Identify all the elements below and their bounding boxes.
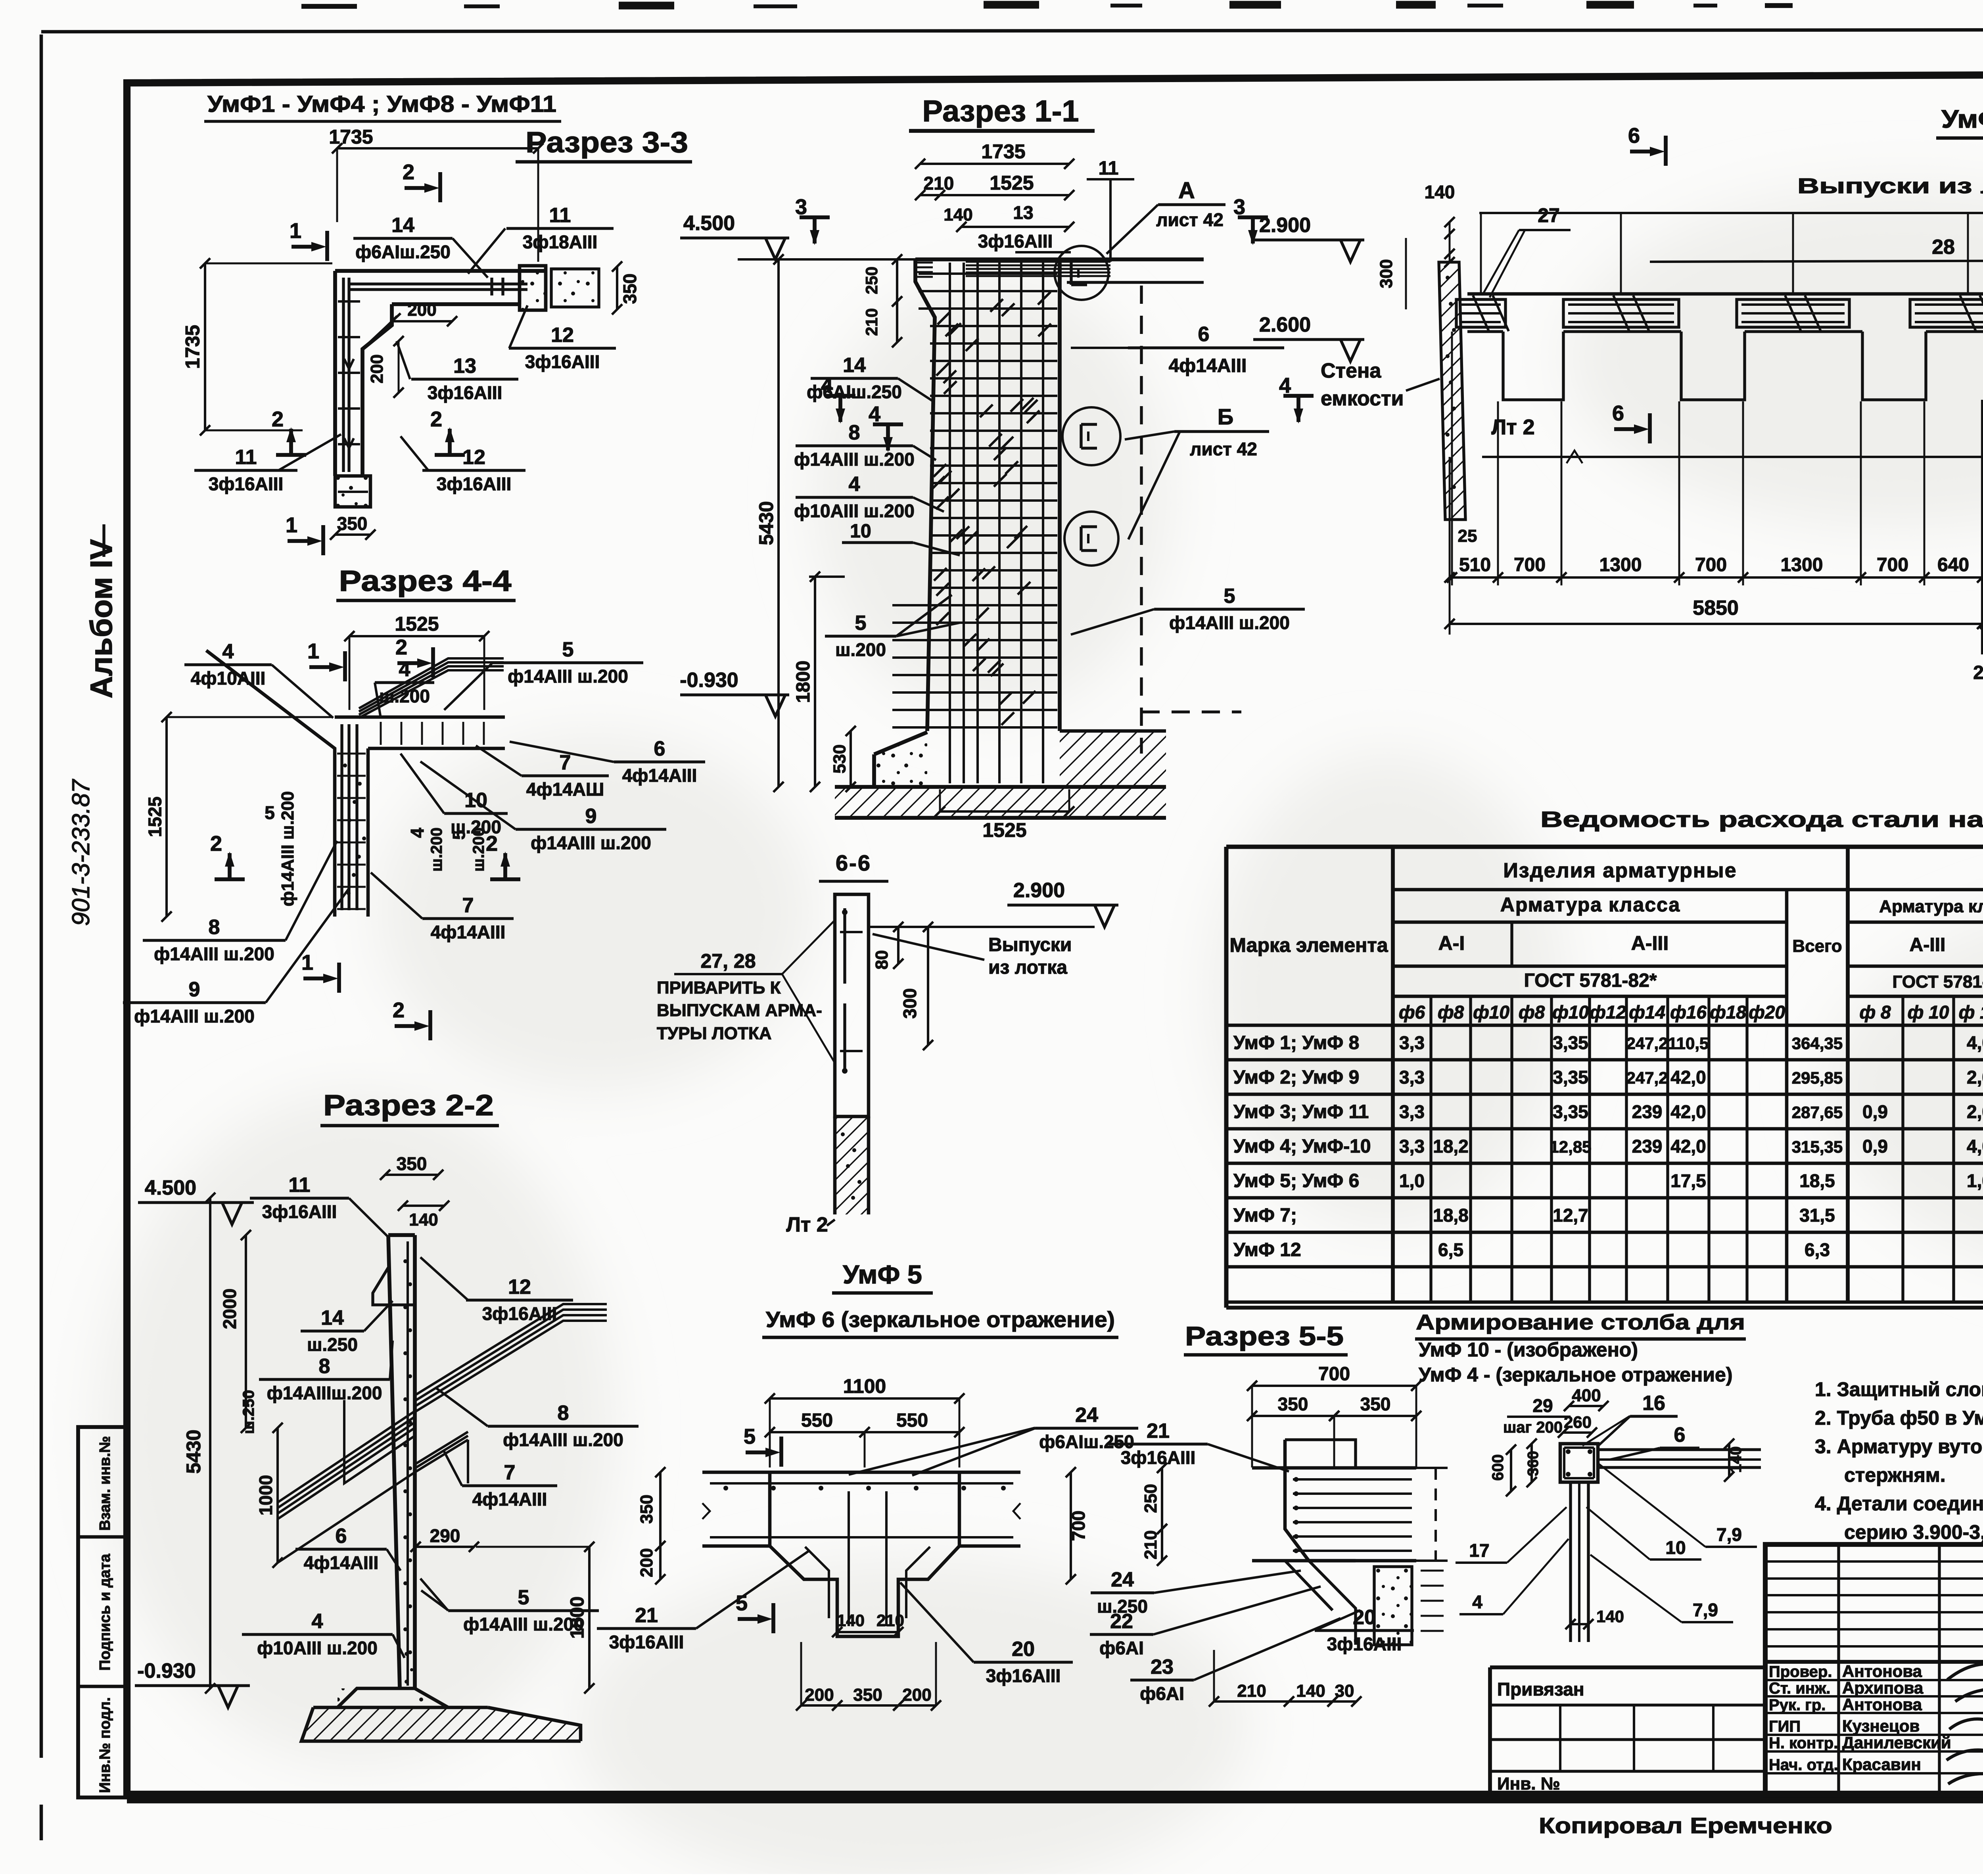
svg-text:4ф14АIII: 4ф14АIII	[431, 922, 506, 942]
svg-text:Разрез 1-1: Разрез 1-1	[922, 94, 1079, 128]
svg-text:11: 11	[549, 204, 571, 227]
svg-text:Арматура класса: Арматура класса	[1500, 894, 1681, 916]
svg-text:239: 239	[1632, 1101, 1663, 1122]
svg-text:шаг 200: шаг 200	[1503, 1419, 1563, 1436]
svg-text:Антонова: Антонова	[1842, 1662, 1922, 1680]
svg-text:18,8: 18,8	[1433, 1205, 1469, 1226]
svg-text:Разрез 4-4: Разрез 4-4	[339, 564, 512, 597]
svg-text:4: 4	[1472, 1592, 1482, 1612]
svg-text:1525: 1525	[145, 796, 165, 837]
svg-text:5: 5	[744, 1425, 756, 1448]
svg-text:140: 140	[1727, 1446, 1745, 1473]
svg-text:1300: 1300	[1781, 554, 1823, 575]
svg-text:700: 700	[1514, 554, 1546, 575]
svg-text:2: 2	[395, 635, 407, 659]
svg-text:110,5: 110,5	[1668, 1034, 1709, 1053]
svg-text:Рук. гр.: Рук. гр.	[1769, 1696, 1826, 1714]
svg-text:5: 5	[265, 802, 275, 823]
svg-text:2: 2	[430, 407, 442, 431]
svg-text:140: 140	[1596, 1607, 1624, 1626]
svg-text:17: 17	[1469, 1540, 1489, 1561]
svg-text:УмФ 12: УмФ 12	[1233, 1239, 1301, 1260]
svg-text:Всего: Всего	[1792, 936, 1842, 956]
svg-text:ф6АI: ф6АI	[1140, 1683, 1184, 1704]
svg-text:Ст. инж.: Ст. инж.	[1769, 1680, 1830, 1697]
svg-text:700: 700	[1068, 1511, 1089, 1541]
svg-text:6-6: 6-6	[836, 850, 871, 875]
svg-text:10: 10	[1665, 1537, 1686, 1558]
svg-text:Провер.: Провер.	[1769, 1663, 1832, 1680]
svg-text:360: 360	[1525, 1451, 1542, 1476]
svg-text:Антонова: Антонова	[1842, 1695, 1922, 1714]
svg-text:1525: 1525	[982, 819, 1026, 841]
svg-text:4ф14АШ: 4ф14АШ	[526, 779, 604, 800]
svg-text:17,5: 17,5	[1670, 1170, 1706, 1191]
svg-text:Альбом IV: Альбом IV	[84, 539, 119, 698]
svg-text:ф10АIII ш.200: ф10АIII ш.200	[794, 501, 915, 521]
svg-text:21: 21	[635, 1604, 658, 1627]
svg-text:1525: 1525	[990, 172, 1034, 194]
svg-text:1100: 1100	[843, 1375, 886, 1397]
svg-text:ф14АIII ш.200: ф14АIII ш.200	[508, 666, 628, 687]
svg-text:24: 24	[1075, 1404, 1098, 1427]
svg-text:ф8: ф8	[1519, 1002, 1545, 1022]
svg-text:3ф16АIII: 3ф16АIII	[986, 1665, 1061, 1686]
svg-text:3ф16АIII: 3ф16АIII	[609, 1632, 684, 1652]
svg-text:Б: Б	[1218, 404, 1233, 429]
svg-text:УмФ 1; УмФ 8: УмФ 1; УмФ 8	[1233, 1032, 1359, 1053]
svg-text:8: 8	[849, 421, 860, 444]
svg-text:УмФ 5; УмФ 6: УмФ 5; УмФ 6	[1233, 1170, 1359, 1191]
svg-text:Привязан: Привязан	[1497, 1679, 1584, 1700]
svg-text:5: 5	[562, 638, 574, 661]
svg-text:Нач. отд.: Нач. отд.	[1769, 1756, 1838, 1774]
svg-text:емкости: емкости	[1321, 387, 1404, 410]
svg-text:11: 11	[1099, 158, 1119, 179]
svg-text:6: 6	[654, 737, 665, 760]
svg-text:3ф16АIII: 3ф16АIII	[525, 351, 600, 372]
svg-text:УмФ 4 - (зеркальное отражение): УмФ 4 - (зеркальное отражение)	[1419, 1364, 1733, 1386]
svg-text:ф16: ф16	[1670, 1002, 1707, 1022]
svg-text:210: 210	[1141, 1530, 1160, 1559]
svg-text:УмФ 12: УмФ 12	[1941, 105, 1983, 133]
svg-text:ПРИВАРИТЬ К: ПРИВАРИТЬ К	[657, 978, 781, 997]
svg-text:из лотка: из лотка	[988, 957, 1067, 978]
svg-text:ш.200: ш.200	[835, 639, 886, 660]
svg-text:16: 16	[1642, 1392, 1665, 1415]
svg-text:Разрез 5-5: Разрез 5-5	[1185, 1321, 1344, 1351]
svg-text:3ф16АIII: 3ф16АIII	[482, 1303, 557, 1324]
svg-text:8: 8	[209, 916, 220, 939]
svg-text:42,0: 42,0	[1670, 1101, 1706, 1122]
svg-text:20: 20	[1973, 662, 1983, 683]
svg-text:31,5: 31,5	[1799, 1205, 1835, 1226]
svg-text:9: 9	[189, 978, 200, 1001]
svg-text:2.900: 2.900	[1259, 214, 1311, 237]
svg-text:901-3-233.87: 901-3-233.87	[67, 779, 95, 926]
svg-text:Инв.№ подл.: Инв.№ подл.	[97, 1697, 113, 1793]
svg-text:4: 4	[407, 828, 428, 838]
svg-text:350: 350	[619, 274, 640, 304]
svg-text:0,9: 0,9	[1862, 1136, 1888, 1157]
svg-text:200: 200	[902, 1685, 931, 1705]
svg-text:18,2: 18,2	[1433, 1136, 1469, 1157]
svg-text:12: 12	[551, 324, 574, 347]
svg-text:10: 10	[850, 521, 871, 542]
svg-text:14: 14	[321, 1306, 344, 1329]
svg-text:250: 250	[1141, 1484, 1160, 1513]
svg-text:6,5: 6,5	[1438, 1239, 1463, 1260]
svg-text:5850: 5850	[1693, 597, 1739, 620]
svg-text:2: 2	[210, 832, 222, 856]
svg-text:А: А	[1178, 178, 1195, 203]
svg-text:29: 29	[1532, 1395, 1553, 1416]
svg-text:УмФ 6 (зеркальное отражение): УмФ 6 (зеркальное отражение)	[766, 1307, 1115, 1332]
svg-text:3,35: 3,35	[1553, 1032, 1588, 1053]
svg-text:315,35: 315,35	[1792, 1137, 1843, 1156]
svg-text:12,7: 12,7	[1553, 1205, 1588, 1226]
svg-text:Н. контр.: Н. контр.	[1769, 1734, 1838, 1752]
svg-text:210: 210	[1237, 1681, 1266, 1701]
svg-text:3ф16АIII: 3ф16АIII	[1327, 1634, 1402, 1654]
svg-text:2. Труба ф50 в УмФ7 учтен: 2. Труба ф50 в УмФ7 учтена в разделе КО.	[1815, 1407, 1983, 1429]
svg-text:3ф18АIII: 3ф18АIII	[523, 232, 598, 252]
svg-text:Кузнецов: Кузнецов	[1842, 1717, 1920, 1735]
svg-text:1,0: 1,0	[1399, 1170, 1425, 1191]
svg-text:серию 3.900-3, вып. 2/82 лист: серию 3.900-3, вып. 2/82 лист 7.	[1844, 1521, 1983, 1543]
svg-text:Армирование столба для: Армирование столба для	[1416, 1310, 1745, 1334]
svg-text:4: 4	[312, 1610, 323, 1633]
svg-text:9: 9	[585, 805, 597, 828]
svg-text:1525: 1525	[395, 613, 439, 635]
svg-text:ф10: ф10	[1552, 1002, 1589, 1022]
svg-text:210: 210	[876, 1611, 904, 1630]
svg-text:ГОСТ 5781-82*: ГОСТ 5781-82*	[1524, 970, 1657, 991]
svg-text:140: 140	[1296, 1681, 1325, 1701]
svg-text:210: 210	[924, 173, 954, 194]
svg-text:4: 4	[222, 640, 234, 663]
svg-text:7: 7	[504, 1461, 516, 1484]
svg-text:1,0: 1,0	[1967, 1170, 1983, 1191]
svg-text:200: 200	[805, 1685, 834, 1705]
svg-text:5430: 5430	[755, 501, 777, 545]
svg-text:14: 14	[391, 214, 414, 237]
svg-text:11: 11	[235, 446, 257, 469]
svg-text:5: 5	[855, 612, 867, 635]
svg-text:200: 200	[637, 1548, 656, 1577]
svg-text:140: 140	[409, 1210, 438, 1230]
svg-text:3,3: 3,3	[1399, 1101, 1425, 1122]
svg-text:140: 140	[1425, 182, 1455, 202]
svg-text:247,2: 247,2	[1626, 1034, 1668, 1053]
svg-text:2,0: 2,0	[1967, 1101, 1983, 1122]
svg-text:350: 350	[1360, 1394, 1391, 1414]
svg-text:140: 140	[944, 205, 972, 224]
svg-text:3,3: 3,3	[1399, 1136, 1425, 1157]
svg-text:Изделия арматурные: Изделия арматурные	[1503, 859, 1737, 882]
svg-text:1735: 1735	[981, 140, 1025, 163]
svg-text:Выпуски из лотков: Выпуски из лотков	[1797, 174, 1983, 198]
svg-text:14: 14	[843, 354, 866, 377]
svg-text:-0.930: -0.930	[680, 669, 738, 692]
svg-text:12,85: 12,85	[1550, 1137, 1591, 1156]
svg-text:350: 350	[853, 1685, 882, 1705]
svg-text:ф6АIш.250: ф6АIш.250	[355, 242, 451, 262]
svg-text:364,35: 364,35	[1792, 1034, 1843, 1053]
svg-text:5: 5	[518, 1586, 529, 1609]
svg-text:ф 10: ф 10	[1908, 1002, 1949, 1022]
svg-text:ш.200: ш.200	[470, 827, 487, 871]
svg-text:350: 350	[397, 1153, 427, 1174]
svg-text:210: 210	[862, 308, 881, 336]
svg-text:2: 2	[393, 998, 405, 1022]
svg-text:3ф16АIII: 3ф16АIII	[209, 474, 284, 494]
svg-text:3. Арматуру вутов приварит: 3. Арматуру вутов приварить к горизонтал…	[1815, 1435, 1983, 1458]
svg-text:1: 1	[290, 219, 301, 243]
svg-text:350: 350	[1278, 1394, 1308, 1414]
svg-text:2,0: 2,0	[1967, 1067, 1983, 1088]
svg-text:2: 2	[403, 160, 414, 184]
svg-text:4.500: 4.500	[145, 1176, 196, 1199]
svg-text:7: 7	[462, 894, 474, 917]
svg-text:Арматура класса: Арматура класса	[1879, 897, 1983, 916]
svg-text:Выпуски: Выпуски	[988, 934, 1072, 955]
svg-text:УмФ 3; УмФ 11: УмФ 3; УмФ 11	[1233, 1101, 1369, 1122]
svg-text:700: 700	[1695, 554, 1727, 575]
svg-text:550: 550	[896, 1410, 928, 1431]
svg-text:7,9: 7,9	[1716, 1524, 1742, 1545]
svg-text:250: 250	[862, 267, 881, 294]
svg-text:3,35: 3,35	[1553, 1101, 1588, 1122]
svg-text:3ф16АIII: 3ф16АIII	[978, 231, 1053, 251]
svg-text:700: 700	[1318, 1364, 1350, 1385]
svg-text:4ф14АIII: 4ф14АIII	[1169, 355, 1247, 376]
svg-text:4.500: 4.500	[683, 212, 735, 235]
svg-text:-0.930: -0.930	[137, 1659, 196, 1682]
svg-text:ш.200: ш.200	[428, 827, 445, 871]
svg-text:295,85: 295,85	[1792, 1068, 1843, 1087]
svg-text:11: 11	[289, 1174, 311, 1197]
svg-text:ш.250: ш.250	[307, 1334, 358, 1355]
svg-text:УмФ 7;: УмФ 7;	[1233, 1205, 1297, 1226]
svg-text:28: 28	[1932, 236, 1955, 259]
svg-text:4: 4	[849, 473, 860, 496]
svg-text:6: 6	[1612, 401, 1624, 425]
svg-text:5: 5	[1224, 585, 1235, 608]
svg-text:Инв. №: Инв. №	[1497, 1774, 1560, 1794]
svg-text:6: 6	[1674, 1423, 1686, 1446]
svg-text:200: 200	[407, 300, 436, 320]
svg-text:УмФ 4; УмФ-10: УмФ 4; УмФ-10	[1233, 1136, 1371, 1157]
svg-text:стержням.: стержням.	[1844, 1464, 1946, 1486]
svg-text:лист 42: лист 42	[1156, 209, 1224, 230]
svg-text:2.600: 2.600	[1259, 313, 1311, 336]
svg-text:22: 22	[1110, 1610, 1133, 1633]
svg-text:350: 350	[337, 513, 368, 534]
svg-text:Разрез 2-2: Разрез 2-2	[323, 1089, 494, 1122]
svg-text:ф14АIIIш.200: ф14АIIIш.200	[267, 1383, 382, 1403]
svg-text:4ф10АIII: 4ф10АIII	[191, 668, 266, 689]
svg-text:Лт 2: Лт 2	[786, 1213, 828, 1236]
svg-text:18,5: 18,5	[1799, 1170, 1835, 1191]
svg-text:27: 27	[1538, 204, 1560, 226]
svg-text:1: 1	[286, 513, 297, 537]
svg-text:42,0: 42,0	[1670, 1136, 1706, 1157]
svg-text:Разрез 3-3: Разрез 3-3	[525, 126, 688, 159]
svg-text:УмФ1 - УмФ4 ; УмФ8 - УмФ11: УмФ1 - УмФ4 ; УмФ8 - УмФ11	[207, 91, 556, 117]
svg-text:4ф14АIII: 4ф14АIII	[622, 765, 697, 786]
svg-text:550: 550	[801, 1410, 833, 1431]
svg-text:УмФ 5: УмФ 5	[843, 1260, 922, 1289]
svg-text:УмФ 2; УмФ 9: УмФ 2; УмФ 9	[1233, 1067, 1359, 1088]
svg-text:6: 6	[336, 1525, 347, 1548]
svg-text:700: 700	[1877, 554, 1908, 575]
svg-text:13: 13	[1013, 202, 1033, 223]
svg-text:Ведомость расхода стали на: Ведомость расхода стали на элемент, кг.	[1540, 807, 1983, 832]
svg-text:Марка элемента: Марка элемента	[1229, 934, 1388, 956]
svg-text:6: 6	[1628, 124, 1640, 148]
svg-text:ф 12: ф 12	[1959, 1002, 1983, 1022]
svg-text:ф14АIII ш.200: ф14АIII ш.200	[1169, 612, 1290, 633]
svg-text:3,35: 3,35	[1553, 1067, 1588, 1088]
svg-text:4,0: 4,0	[1967, 1032, 1983, 1053]
svg-text:8: 8	[319, 1355, 330, 1378]
svg-text:42,0: 42,0	[1670, 1067, 1706, 1088]
svg-text:ф14АIII ш.200: ф14АIII ш.200	[278, 791, 297, 906]
svg-text:300: 300	[1377, 259, 1396, 288]
svg-text:6,3: 6,3	[1805, 1239, 1830, 1260]
svg-text:ф14АIII ш.200: ф14АIII ш.200	[503, 1429, 623, 1450]
svg-text:350: 350	[637, 1494, 656, 1523]
svg-text:2000: 2000	[219, 1289, 240, 1329]
svg-text:3ф16АIII: 3ф16АIII	[428, 382, 502, 403]
svg-text:8: 8	[558, 1402, 569, 1425]
svg-text:ш.200: ш.200	[379, 686, 430, 706]
svg-text:1: 1	[307, 639, 319, 663]
svg-text:2: 2	[486, 832, 498, 856]
svg-text:1800: 1800	[793, 661, 814, 703]
svg-text:3ф16АIII: 3ф16АIII	[262, 1201, 337, 1222]
svg-text:300: 300	[899, 988, 920, 1019]
svg-text:Подпись и дата: Подпись и дата	[97, 1554, 113, 1671]
svg-text:ВЫПУСКАМ АРМА-: ВЫПУСКАМ АРМА-	[657, 1001, 822, 1020]
svg-text:4,0: 4,0	[1967, 1136, 1983, 1157]
svg-text:4: 4	[1279, 374, 1291, 397]
svg-text:3,3: 3,3	[1399, 1067, 1425, 1088]
svg-text:ф6АIш.250: ф6АIш.250	[807, 382, 902, 402]
svg-text:4. Детали соединения арматур: 4. Детали соединения арматурных стержней…	[1815, 1492, 1983, 1515]
svg-text:ф 8: ф 8	[1859, 1002, 1891, 1022]
svg-text:6: 6	[1198, 323, 1210, 346]
svg-text:ТУРЫ ЛОТКА: ТУРЫ ЛОТКА	[657, 1024, 772, 1043]
svg-text:4ф14АIII: 4ф14АIII	[304, 1552, 379, 1573]
svg-text:ф14АIII ш.200: ф14АIII ш.200	[463, 1614, 584, 1634]
svg-text:1300: 1300	[1599, 554, 1642, 575]
svg-text:4: 4	[399, 658, 410, 681]
svg-text:640: 640	[1937, 554, 1969, 575]
svg-text:А-I: А-I	[1438, 932, 1465, 954]
svg-text:4ф14АIII: 4ф14АIII	[472, 1489, 547, 1510]
svg-text:ф14АIII ш.200: ф14АIII ш.200	[154, 944, 274, 964]
svg-text:3,3: 3,3	[1399, 1032, 1425, 1053]
svg-text:287,65: 287,65	[1792, 1103, 1843, 1122]
svg-text:140: 140	[837, 1611, 865, 1630]
svg-text:3ф16АIII: 3ф16АIII	[1121, 1447, 1196, 1468]
svg-text:1800: 1800	[567, 1596, 588, 1639]
svg-text:530: 530	[830, 744, 850, 773]
svg-text:5: 5	[736, 1591, 748, 1615]
svg-text:Архипова: Архипова	[1842, 1678, 1924, 1697]
svg-text:5: 5	[449, 830, 469, 840]
svg-text:3: 3	[795, 195, 807, 219]
svg-text:ф6: ф6	[1399, 1002, 1425, 1022]
svg-text:20: 20	[1353, 1606, 1376, 1629]
svg-text:510: 510	[1459, 554, 1491, 575]
svg-text:УмФ 10 - (изображено): УмФ 10 - (изображено)	[1419, 1339, 1638, 1361]
svg-text:ф20: ф20	[1749, 1002, 1785, 1022]
svg-text:20: 20	[1012, 1638, 1035, 1661]
svg-text:13: 13	[453, 355, 476, 378]
svg-text:ф14АIII ш.200: ф14АIII ш.200	[794, 449, 915, 470]
svg-text:ш.250: ш.250	[240, 1390, 257, 1434]
svg-text:ф10АIII ш.200: ф10АIII ш.200	[257, 1638, 378, 1658]
svg-text:ф18: ф18	[1710, 1002, 1746, 1022]
svg-text:12: 12	[508, 1276, 531, 1299]
svg-text:27, 28: 27, 28	[700, 950, 756, 972]
svg-text:0,9: 0,9	[1862, 1101, 1888, 1122]
svg-text:ф14АIII ш.200: ф14АIII ш.200	[134, 1006, 255, 1026]
svg-text:ф12: ф12	[1590, 1002, 1626, 1022]
svg-text:1000: 1000	[255, 1475, 276, 1515]
svg-text:3: 3	[1233, 195, 1245, 219]
svg-text:5430: 5430	[182, 1429, 205, 1473]
svg-text:239: 239	[1632, 1136, 1663, 1157]
svg-text:А-III: А-III	[1631, 932, 1668, 954]
svg-text:400: 400	[1572, 1386, 1601, 1405]
svg-text:25: 25	[1458, 526, 1477, 546]
svg-text:200: 200	[367, 354, 387, 383]
svg-text:ф6АI: ф6АI	[1099, 1638, 1144, 1658]
svg-text:ГИП: ГИП	[1769, 1718, 1801, 1735]
svg-text:Взам. инв.№: Взам. инв.№	[97, 1436, 113, 1531]
svg-text:Красавин: Красавин	[1842, 1755, 1921, 1774]
svg-text:1. Защитный слой бетона -: 1. Защитный слой бетона - 20 мм.	[1815, 1378, 1983, 1400]
svg-text:80: 80	[872, 950, 892, 970]
svg-text:2: 2	[272, 407, 284, 431]
svg-text:ф14: ф14	[1629, 1002, 1665, 1022]
svg-text:3ф16АIII: 3ф16АIII	[437, 474, 512, 494]
svg-text:ф14АIII ш.200: ф14АIII ш.200	[531, 832, 651, 853]
svg-text:247,2: 247,2	[1626, 1068, 1668, 1087]
svg-text:ф6АIш.250: ф6АIш.250	[1039, 1431, 1134, 1452]
svg-text:ф10: ф10	[1473, 1002, 1509, 1022]
svg-text:2.900: 2.900	[1013, 879, 1065, 902]
svg-text:30: 30	[1335, 1681, 1354, 1701]
svg-text:4: 4	[869, 402, 880, 426]
svg-text:600: 600	[1489, 1454, 1507, 1481]
svg-text:12: 12	[462, 446, 485, 469]
svg-text:23: 23	[1151, 1655, 1174, 1678]
svg-text:1735: 1735	[329, 126, 373, 148]
svg-text:лист 42: лист 42	[1190, 439, 1257, 459]
svg-text:24: 24	[1111, 1568, 1134, 1591]
svg-text:7,9: 7,9	[1693, 1600, 1718, 1620]
svg-text:21: 21	[1147, 1419, 1170, 1442]
svg-text:1: 1	[301, 951, 313, 974]
svg-text:1735: 1735	[182, 325, 204, 369]
svg-text:290: 290	[430, 1525, 460, 1546]
svg-text:А-III: А-III	[1910, 934, 1946, 955]
